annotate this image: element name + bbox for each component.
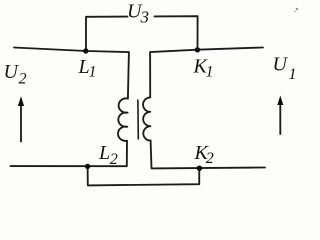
arrow U1 (right, pointing up) (279, 103, 281, 134)
inductor K1-K2 winding (3 loops) (143, 97, 151, 140)
label L1 (78, 56, 97, 81)
node L2 (85, 164, 90, 169)
label K1 (193, 56, 214, 81)
node K2 (197, 166, 202, 171)
inductor L1-L2 winding (3 loops) (118, 98, 128, 141)
label K2 (194, 142, 214, 167)
svg-text:3: 3 (140, 8, 150, 27)
svg-text:L: L (98, 142, 110, 164)
arrow U2 (left, pointing up) (20, 104, 22, 142)
wire inductor K bottom into bottom-right rail (151, 141, 265, 169)
svg-text:U: U (273, 54, 289, 76)
wire bottom bridge L2 to K2 (88, 167, 200, 186)
svg-text:2: 2 (206, 150, 214, 167)
svg-text:1: 1 (289, 66, 297, 83)
svg-text:2: 2 (110, 151, 118, 168)
speck (scan artifact top right) (294, 8, 298, 13)
wire inductor L bottom into bottom-left rail (11, 141, 128, 166)
wire top-right rail into inductor K top (150, 48, 263, 98)
svg-text:1: 1 (89, 64, 97, 81)
arrowhead U2 (18, 96, 24, 106)
svg-text:U: U (4, 61, 20, 83)
svg-text:2: 2 (19, 70, 27, 87)
wire top bridge left (node L1 up and right to U3 label) (86, 17, 128, 51)
label U1 (273, 54, 297, 83)
svg-text:1: 1 (206, 64, 214, 81)
node L1 (83, 48, 88, 53)
wire top-left rail into inductor L top (14, 48, 129, 99)
arrowhead U1 (277, 96, 283, 106)
label L2 (98, 142, 118, 168)
wire top bridge right (from U3 label right, down to node K1) (155, 16, 198, 50)
node K1 (195, 47, 200, 52)
core (magnetic core line between windings) (137, 100, 139, 139)
label U3 (127, 1, 149, 27)
label U2 (4, 61, 27, 87)
